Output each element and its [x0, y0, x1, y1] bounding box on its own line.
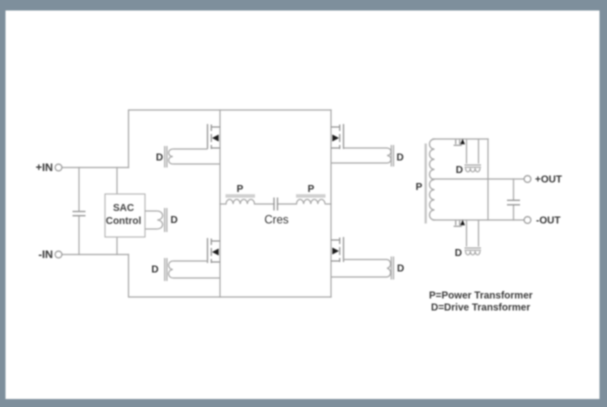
- svg-text:D: D: [455, 248, 462, 259]
- svg-text:D=Drive Transformer: D=Drive Transformer: [431, 303, 530, 314]
- svg-text:D: D: [171, 215, 178, 226]
- svg-text:D: D: [456, 165, 463, 176]
- svg-text:-IN: -IN: [38, 249, 53, 261]
- svg-text:P=Power Transformer: P=Power Transformer: [429, 291, 533, 302]
- svg-text:P: P: [308, 184, 315, 195]
- svg-text:Control: Control: [106, 216, 142, 227]
- svg-text:P: P: [237, 184, 244, 195]
- svg-text:D: D: [397, 153, 404, 164]
- svg-text:D: D: [397, 264, 404, 275]
- svg-text:-OUT: -OUT: [536, 216, 560, 227]
- svg-text:+IN: +IN: [36, 162, 53, 174]
- svg-text:P: P: [416, 182, 423, 193]
- svg-text:SAC: SAC: [113, 203, 134, 214]
- svg-text:+OUT: +OUT: [535, 175, 562, 186]
- svg-text:D: D: [151, 265, 158, 276]
- svg-text:Cres: Cres: [264, 215, 289, 227]
- svg-text:D: D: [156, 153, 163, 164]
